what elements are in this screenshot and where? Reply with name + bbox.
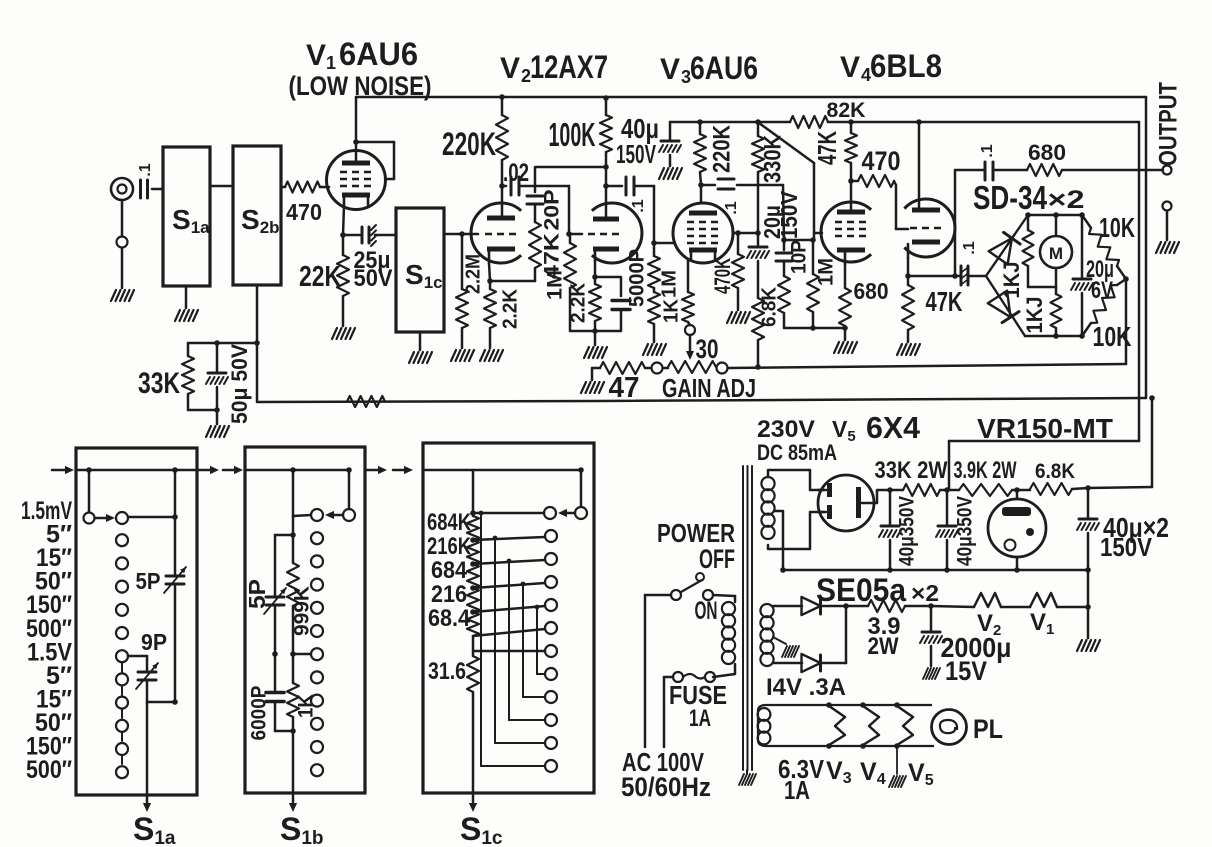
svg-text:47: 47 xyxy=(609,372,640,404)
resistor 220K V2a plate xyxy=(442,94,508,186)
S1c drop left xyxy=(470,470,476,516)
svg-text:6.8K: 6.8K xyxy=(1035,460,1075,483)
resistor 2.2K V2a xyxy=(484,281,521,348)
svg-text:2.2M: 2.2M xyxy=(462,254,484,294)
switch box S1a xyxy=(76,448,197,795)
S1b left chain top xyxy=(275,517,296,595)
heater wire V2 V1 xyxy=(931,593,1091,610)
resistor 1KJ lower xyxy=(1022,287,1062,336)
pot contact circle xyxy=(685,325,695,335)
switch box S1c (top) xyxy=(396,208,444,332)
capacitor 6000P xyxy=(248,686,293,741)
svg-text:684: 684 xyxy=(431,557,468,584)
svg-text:OFF: OFF xyxy=(699,544,735,574)
ground output xyxy=(1156,242,1179,253)
output ground terminal xyxy=(1163,202,1172,241)
V1 cathode xyxy=(342,193,370,206)
svg-text:.1: .1 xyxy=(961,241,978,254)
svg-text:68.4: 68.4 xyxy=(428,605,471,632)
wire VR150 box top xyxy=(949,441,1139,490)
wire V2b cathode xyxy=(592,261,598,280)
transformer core xyxy=(743,466,752,770)
heater V5 xyxy=(894,702,913,749)
svg-text:ON: ON xyxy=(695,597,718,625)
gain pot terminals xyxy=(652,361,728,374)
svg-text:150V: 150V xyxy=(1100,532,1153,562)
wire B+ top bus xyxy=(356,97,1146,160)
svg-text:150V: 150V xyxy=(616,139,656,169)
label 25u 50V xyxy=(354,247,393,292)
ground 1K xyxy=(643,344,666,355)
svg-text:5P: 5P xyxy=(136,568,161,594)
label SD-34x2 xyxy=(973,179,1085,216)
S1a wiper xyxy=(84,470,129,524)
label S1c bottom xyxy=(460,811,503,847)
pot wiper arrow 30 xyxy=(686,334,719,364)
label VR150-MT xyxy=(977,413,1113,444)
V5 cathode xyxy=(856,487,874,518)
resistor feedback (unlabeled) xyxy=(347,396,385,407)
resistor 470 V4 xyxy=(851,146,908,229)
svg-text:82K: 82K xyxy=(827,99,866,122)
svg-text:OUTPUT: OUTPUT xyxy=(1155,82,1183,166)
capacitor 20P xyxy=(527,186,543,222)
V3 plate bar xyxy=(689,211,717,216)
resistor 470 grid xyxy=(281,182,327,226)
svg-text:V: V xyxy=(306,39,326,72)
label 230V V5 6X4 xyxy=(757,410,921,445)
ground S1a xyxy=(175,286,198,321)
svg-text:6AU6: 6AU6 xyxy=(690,50,758,86)
capacitor 40ux2 150V xyxy=(1077,488,1169,570)
V4t plate wire xyxy=(916,119,922,211)
svg-text:216K: 216K xyxy=(427,533,472,560)
V4p plate bar xyxy=(837,210,865,215)
svg-text:470: 470 xyxy=(286,199,322,225)
svg-text:100K: 100K xyxy=(549,116,596,153)
ground core xyxy=(739,770,756,785)
input jack J1 xyxy=(111,178,133,200)
svg-text:PL: PL xyxy=(973,714,1003,744)
wire resistor bottoms xyxy=(784,325,848,331)
wire bias top xyxy=(773,605,802,608)
S1b wiper xyxy=(311,467,355,521)
S1b drop left xyxy=(290,467,311,517)
wire V2a cathode xyxy=(487,263,493,284)
S1a 9P branch xyxy=(128,656,147,670)
labels V2 V1 heaters xyxy=(977,609,1054,639)
V2a plate bar xyxy=(487,216,515,221)
VR150 internals xyxy=(1002,507,1034,551)
capacitor 20u 6V xyxy=(1071,215,1093,336)
wire V3 screen xyxy=(733,230,758,236)
capacitor .1 bridge xyxy=(961,241,986,285)
label V3 6AU6 xyxy=(660,50,758,87)
ground gain adj xyxy=(581,368,604,393)
wire heater gnd xyxy=(1087,570,1090,638)
label V1 6AU6 xyxy=(289,36,432,101)
svg-text:M: M xyxy=(1049,244,1063,263)
V1 grids xyxy=(340,172,372,186)
svg-text:216: 216 xyxy=(431,581,467,608)
svg-text:.1: .1 xyxy=(723,201,740,214)
wire S1a-S2b xyxy=(210,185,233,188)
resistor 47K V4 screen xyxy=(812,119,857,184)
wire gain adj to bridge xyxy=(728,279,1126,370)
tube V1 6AU6 xyxy=(327,151,386,210)
winding primary xyxy=(722,602,735,664)
svg-text:470: 470 xyxy=(862,146,901,176)
resistor 6.8K screen xyxy=(752,286,780,367)
ground V4 grid cluster xyxy=(834,328,857,353)
terminal circle xyxy=(117,237,128,248)
svg-text:5P: 5P xyxy=(244,579,270,609)
V4t grid xyxy=(910,227,942,230)
V2b cathode xyxy=(593,247,619,262)
label 6.3V etc xyxy=(778,754,934,789)
diode SE05a no1 xyxy=(802,597,849,615)
svg-text:.1: .1 xyxy=(137,163,154,176)
wire node B xyxy=(535,167,606,237)
svg-text:330K: 330K xyxy=(759,134,786,183)
svg-text:33K 2W: 33K 2W xyxy=(875,457,948,484)
capacitor 40u 150V xyxy=(616,113,681,169)
wire bottom feedback bus xyxy=(257,343,1146,402)
svg-text:50V: 50V xyxy=(354,265,393,292)
S1b exit arrow xyxy=(289,731,297,812)
svg-text:(LOW NOISE): (LOW NOISE) xyxy=(289,71,432,101)
wire inner box right side xyxy=(1138,122,1141,441)
wire to 10P node xyxy=(781,185,816,243)
resistor chain 684K 216K 684 216 68.4 xyxy=(467,516,479,636)
switch box S2b xyxy=(233,146,281,285)
resistor below 10P xyxy=(778,258,838,328)
resistor V3 cathode xyxy=(682,260,694,325)
svg-text:.1: .1 xyxy=(630,199,647,212)
svg-text:500″: 500″ xyxy=(26,756,72,784)
resistor 470K xyxy=(710,233,744,310)
output terminal xyxy=(1163,166,1172,175)
svg-text:2.2K: 2.2K xyxy=(567,282,589,323)
svg-text:3.9K 2W: 3.9K 2W xyxy=(954,457,1017,484)
svg-text:6000P: 6000P xyxy=(248,686,271,741)
bridge top rail xyxy=(1025,212,1085,218)
power switch xyxy=(671,580,713,600)
svg-text:15V: 15V xyxy=(945,656,987,686)
capacitor .02 xyxy=(499,159,535,216)
label S1a bottom xyxy=(133,811,176,847)
heater V4 xyxy=(860,702,879,749)
V4t plate bar xyxy=(912,208,940,213)
S1b left chain mid xyxy=(272,606,278,691)
resistor 10K lower xyxy=(1082,276,1132,352)
svg-text:V: V xyxy=(840,51,860,84)
V4p cathode xyxy=(837,248,865,265)
S1a exit arrow xyxy=(143,702,151,812)
svg-text:20P: 20P xyxy=(541,190,564,231)
ground 470K xyxy=(727,312,750,323)
resistor 3.9K 2W xyxy=(944,457,1017,496)
label S1b bottom xyxy=(280,811,324,847)
chain labels xyxy=(427,509,472,632)
svg-text:47K: 47K xyxy=(812,131,842,165)
switch contact off xyxy=(696,573,704,581)
capacitor C-in .1 xyxy=(137,163,154,198)
resistor 1K V3 grid xyxy=(648,288,682,342)
svg-text:1A: 1A xyxy=(689,705,711,732)
V1 screen loop xyxy=(353,139,394,179)
svg-text:684K: 684K xyxy=(427,509,472,536)
V3 grids xyxy=(687,222,719,243)
wire V2a grid in xyxy=(444,231,478,237)
svg-text:10K: 10K xyxy=(1099,212,1135,243)
V1 plate bar xyxy=(342,161,370,166)
resistor 33K 2W xyxy=(875,457,948,496)
capacitor 40u350V no2 xyxy=(936,490,977,570)
capacitor 5000P xyxy=(595,249,649,331)
svg-text:680: 680 xyxy=(1028,140,1066,165)
tube V2a xyxy=(471,203,521,263)
svg-text:6BL8: 6BL8 xyxy=(870,48,942,84)
resistor 220K V3 plate xyxy=(694,119,735,203)
svg-text:V: V xyxy=(500,52,520,85)
resistor 1M V4 grid leak xyxy=(807,240,819,328)
switch box S1a (top) xyxy=(163,147,210,286)
svg-text:1KJ: 1KJ xyxy=(999,262,1024,299)
meter M xyxy=(1040,215,1072,287)
svg-text:12AX7: 12AX7 xyxy=(530,49,608,85)
resistor 330K xyxy=(752,119,786,236)
V5 plate 2 xyxy=(818,505,832,519)
wire V1 cathode down xyxy=(340,205,346,238)
wire V3 grid xyxy=(654,242,675,245)
diode SD-34 lower xyxy=(986,276,1025,336)
S1a contacts xyxy=(116,534,128,778)
resistor 6.8K xyxy=(1014,460,1088,495)
wire inner B+ line xyxy=(670,121,1139,124)
svg-text:6.8K: 6.8K xyxy=(758,286,780,327)
svg-text:×2: ×2 xyxy=(911,580,939,606)
svg-text:22K: 22K xyxy=(299,261,341,293)
bus B- line xyxy=(780,567,1091,573)
arrows S1b-S1c xyxy=(367,466,413,474)
wire bias bottom xyxy=(773,662,802,665)
ground S1c top xyxy=(409,332,432,363)
svg-text:6AU6: 6AU6 xyxy=(339,36,418,72)
resistor 22K V1 cathode xyxy=(299,235,349,326)
winding heater xyxy=(758,708,771,744)
switch box S1b xyxy=(245,447,365,793)
S1c row7 tap xyxy=(473,650,545,653)
S1c wiper xyxy=(544,467,587,519)
label 20u 6V xyxy=(1086,256,1114,304)
S1b bus xyxy=(245,469,350,472)
labels 20P 47K 1M xyxy=(541,190,567,301)
label POWER OFF xyxy=(657,518,735,574)
S1c exit arrow xyxy=(469,692,477,812)
winding HV xyxy=(761,477,774,539)
resistor 33K xyxy=(138,343,217,410)
svg-text:1KJ: 1KJ xyxy=(1022,297,1047,334)
capacitor interstage xyxy=(701,179,783,215)
tube V4 triode xyxy=(904,199,955,257)
wire outer box right side xyxy=(1145,97,1148,398)
label OUTPUT xyxy=(1155,82,1183,166)
switch box S1c2 xyxy=(423,443,594,793)
trimmer 5P S1a xyxy=(136,567,187,594)
trimmer 5P S1b xyxy=(244,579,286,614)
S1c contacts xyxy=(545,530,557,772)
wire jack to S1a xyxy=(152,188,163,191)
svg-text:10P: 10P xyxy=(788,240,811,274)
wire switch left xyxy=(645,595,671,747)
V5 plate 1 xyxy=(818,483,832,497)
svg-text:40μ350V: 40μ350V xyxy=(954,496,977,566)
svg-text:2.2K: 2.2K xyxy=(499,288,521,329)
svg-text:1K: 1K xyxy=(295,694,318,718)
diode SD-34 upper xyxy=(986,215,1028,276)
S1c staircase wires xyxy=(479,511,545,766)
label FUSE 1A xyxy=(669,680,727,732)
V2a grid xyxy=(485,233,517,236)
ground 47K V4t xyxy=(897,344,920,355)
resistor 680 V4 cathode xyxy=(839,264,889,328)
label DC 85mA xyxy=(757,440,837,465)
wire V4t cathode xyxy=(905,258,959,279)
resistor 2.2K V2b xyxy=(567,277,601,345)
resistor 47K V4t xyxy=(902,276,963,342)
capacitor 40u350V no1 xyxy=(879,490,919,570)
ground 2.2M xyxy=(451,350,474,361)
svg-text:47K: 47K xyxy=(926,286,963,317)
wire S2b down xyxy=(254,285,260,346)
S1a 9P bottom xyxy=(147,681,178,705)
ground xyxy=(111,290,134,301)
svg-text:470K: 470K xyxy=(710,258,735,294)
svg-text:30: 30 xyxy=(696,334,719,364)
diode SE05a no2 xyxy=(802,606,847,672)
ground 2.2K xyxy=(480,350,503,361)
svg-text:220K: 220K xyxy=(708,124,735,173)
svg-text:9P: 9P xyxy=(141,629,167,655)
label PL xyxy=(973,714,1003,744)
V3 cathode xyxy=(689,248,717,261)
arrows S1a-S1b xyxy=(198,466,243,474)
tube V3 6AU6 xyxy=(673,203,733,263)
wire diagonal V3-V4 xyxy=(759,123,814,240)
resistor 680 output xyxy=(1027,140,1163,176)
svg-text:5000P: 5000P xyxy=(626,249,649,307)
wire V5 out xyxy=(874,490,890,503)
resistor 10K upper xyxy=(1082,212,1135,279)
winding bias xyxy=(760,604,773,666)
svg-text:680: 680 xyxy=(854,278,889,304)
svg-text:I4V .3A: I4V .3A xyxy=(766,674,846,701)
pilot lamp PL xyxy=(932,710,967,745)
svg-text:150V: 150V xyxy=(776,190,802,239)
V2b plate bar xyxy=(593,203,619,222)
resistor 100K V2b plate xyxy=(549,95,613,203)
svg-text:DC 85mA: DC 85mA xyxy=(757,440,837,465)
wire primary bottom xyxy=(713,664,735,677)
svg-text:×2: ×2 xyxy=(1048,186,1085,214)
S1a chain links xyxy=(121,663,123,764)
wire HV center tap xyxy=(775,511,783,570)
wire cluster top xyxy=(188,340,257,346)
capacitor 25u50V xyxy=(343,225,396,246)
svg-text:50/60Hz: 50/60Hz xyxy=(621,772,711,802)
resistor 3.9 2W xyxy=(846,600,934,660)
label GAIN ADJ xyxy=(662,373,756,403)
ground 22K xyxy=(332,328,355,339)
svg-text:10K: 10K xyxy=(1093,321,1132,352)
resistor 1M V3 grid xyxy=(648,186,680,298)
svg-text:6X4: 6X4 xyxy=(866,410,921,445)
svg-text:SE05a: SE05a xyxy=(816,572,906,608)
svg-text:31.6: 31.6 xyxy=(428,658,466,685)
label AC100V xyxy=(621,747,711,802)
heater V3 xyxy=(826,702,845,749)
ground heater xyxy=(1077,640,1100,651)
capacitor 50u 50V xyxy=(206,343,252,424)
svg-text:.1: .1 xyxy=(979,144,996,157)
trimmer 9P xyxy=(136,629,167,689)
range labels xyxy=(21,497,72,784)
V4p grids xyxy=(835,222,867,236)
svg-text:220K: 220K xyxy=(442,126,496,162)
wire to V2b grid xyxy=(569,233,582,236)
resistor 2.2M xyxy=(456,234,484,348)
resistor 1K S1b xyxy=(287,654,318,734)
svg-text:40μ350V: 40μ350V xyxy=(896,496,919,566)
V2a cathode xyxy=(487,247,515,264)
wire 680 line xyxy=(955,170,984,275)
fuse xyxy=(673,672,715,682)
label 14V .3A xyxy=(766,674,846,701)
svg-text:GAIN ADJ: GAIN ADJ xyxy=(662,373,756,403)
label V2 12AX7 xyxy=(500,49,608,86)
tube VR150 xyxy=(988,490,1046,570)
svg-text:33K: 33K xyxy=(138,367,180,400)
resistor 47K feedback xyxy=(490,222,541,281)
wire fuse left xyxy=(664,677,673,747)
resistor 47 xyxy=(592,362,651,404)
label 1A heater xyxy=(784,775,810,805)
resistor 1KJ upper xyxy=(999,215,1056,299)
S1b contacts xyxy=(311,532,323,776)
resistor 82K xyxy=(790,99,866,128)
label V4 6BL8 xyxy=(840,48,942,85)
ground 40u xyxy=(659,168,682,179)
label SE05a x2 xyxy=(816,572,939,608)
wire HV bottom xyxy=(768,512,824,549)
wire B+ to VR box xyxy=(1085,395,1155,491)
svg-text:1K: 1K xyxy=(660,298,682,323)
tube V4 pentode xyxy=(821,202,871,262)
resistor 31.6 xyxy=(428,636,479,692)
capacitor 10P xyxy=(776,240,811,276)
wire HV top xyxy=(768,470,824,490)
svg-text:.02: .02 xyxy=(503,159,529,187)
svg-text:VR150-MT: VR150-MT xyxy=(977,413,1113,444)
svg-text:SD-34: SD-34 xyxy=(973,179,1048,216)
V4p plate wire xyxy=(850,181,853,210)
wire jack ground leg xyxy=(121,200,124,288)
svg-text:1: 1 xyxy=(326,53,336,73)
S1a row1 wire xyxy=(128,514,178,520)
svg-text:1M: 1M xyxy=(658,270,680,298)
svg-text:V: V xyxy=(660,53,680,86)
